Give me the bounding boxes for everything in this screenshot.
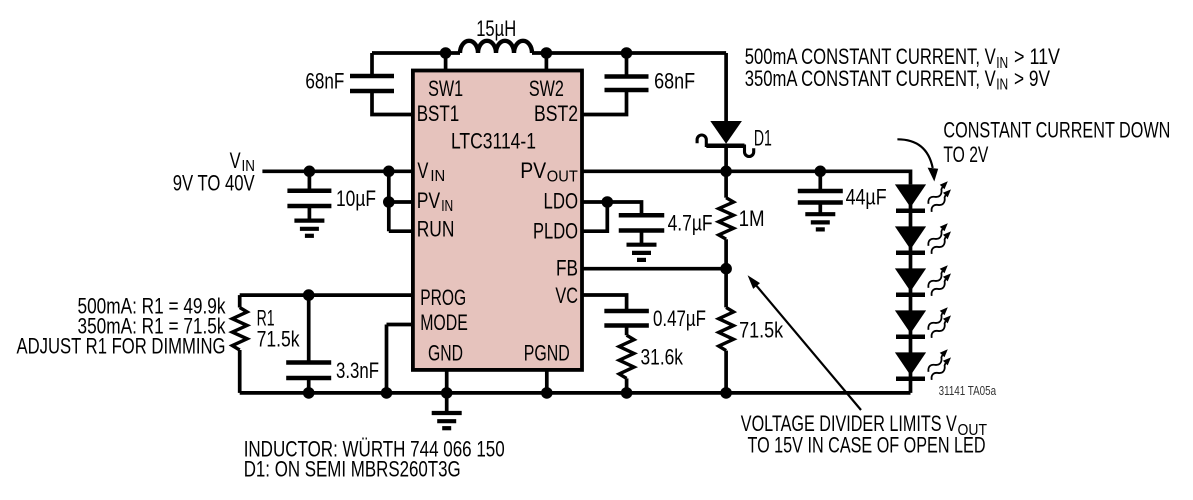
- svg-text:LTC3114-1: LTC3114-1: [451, 129, 536, 154]
- svg-text:SW1: SW1: [428, 76, 463, 101]
- svg-text:FB: FB: [556, 256, 578, 281]
- svg-text:PLDO: PLDO: [533, 219, 578, 244]
- svg-text:> 9V: > 9V: [1014, 66, 1050, 91]
- svg-text:31.6k: 31.6k: [641, 345, 684, 370]
- svg-text:PROG: PROG: [420, 285, 466, 310]
- svg-text:3.3nF: 3.3nF: [336, 358, 379, 383]
- svg-text:15µH: 15µH: [476, 16, 516, 41]
- svg-text:71.5k: 71.5k: [739, 318, 784, 343]
- svg-text:68nF: 68nF: [654, 69, 695, 94]
- svg-text:IN: IN: [441, 198, 453, 215]
- svg-text:31141 TA05a: 31141 TA05a: [939, 384, 997, 398]
- svg-text:SW2: SW2: [529, 76, 564, 101]
- svg-text:V: V: [230, 148, 241, 173]
- svg-text:1M: 1M: [739, 206, 765, 231]
- svg-text:PV: PV: [417, 188, 441, 213]
- svg-text:PGND: PGND: [524, 341, 570, 366]
- svg-text:44µF: 44µF: [846, 185, 887, 210]
- svg-text:TO 2V: TO 2V: [943, 142, 988, 167]
- svg-text:CONSTANT CURRENT DOWN: CONSTANT CURRENT DOWN: [943, 118, 1170, 143]
- svg-text:IN: IN: [996, 55, 1008, 72]
- svg-text:IN: IN: [430, 168, 445, 185]
- svg-text:10µF: 10µF: [336, 186, 376, 211]
- svg-text:0.47µF: 0.47µF: [653, 306, 706, 331]
- svg-text:VC: VC: [555, 283, 578, 308]
- svg-text:ADJUST R1 FOR DIMMING: ADJUST R1 FOR DIMMING: [17, 334, 226, 359]
- svg-text:GND: GND: [428, 341, 463, 366]
- svg-text:MODE: MODE: [420, 310, 468, 335]
- svg-text:V: V: [417, 158, 428, 183]
- svg-text:D1: D1: [754, 126, 772, 151]
- svg-text:4.7µF: 4.7µF: [668, 211, 713, 236]
- svg-text:71.5k: 71.5k: [257, 326, 301, 351]
- svg-text:350mA CONSTANT CURRENT, V: 350mA CONSTANT CURRENT, V: [745, 66, 996, 91]
- svg-text:PV: PV: [520, 158, 546, 183]
- svg-text:RUN: RUN: [417, 217, 455, 242]
- svg-text:TO 15V IN CASE OF OPEN LED: TO 15V IN CASE OF OPEN LED: [748, 433, 986, 458]
- svg-text:IN: IN: [996, 77, 1008, 94]
- svg-text:D1: ON SEMI MBRS260T3G: D1: ON SEMI MBRS260T3G: [244, 457, 461, 482]
- svg-text:LDO: LDO: [544, 189, 579, 214]
- svg-text:BST1: BST1: [417, 101, 460, 126]
- svg-text:BST2: BST2: [534, 101, 578, 126]
- svg-text:68nF: 68nF: [305, 69, 344, 94]
- svg-text:OUT: OUT: [547, 168, 578, 185]
- svg-text:9V TO 40V: 9V TO 40V: [173, 171, 255, 196]
